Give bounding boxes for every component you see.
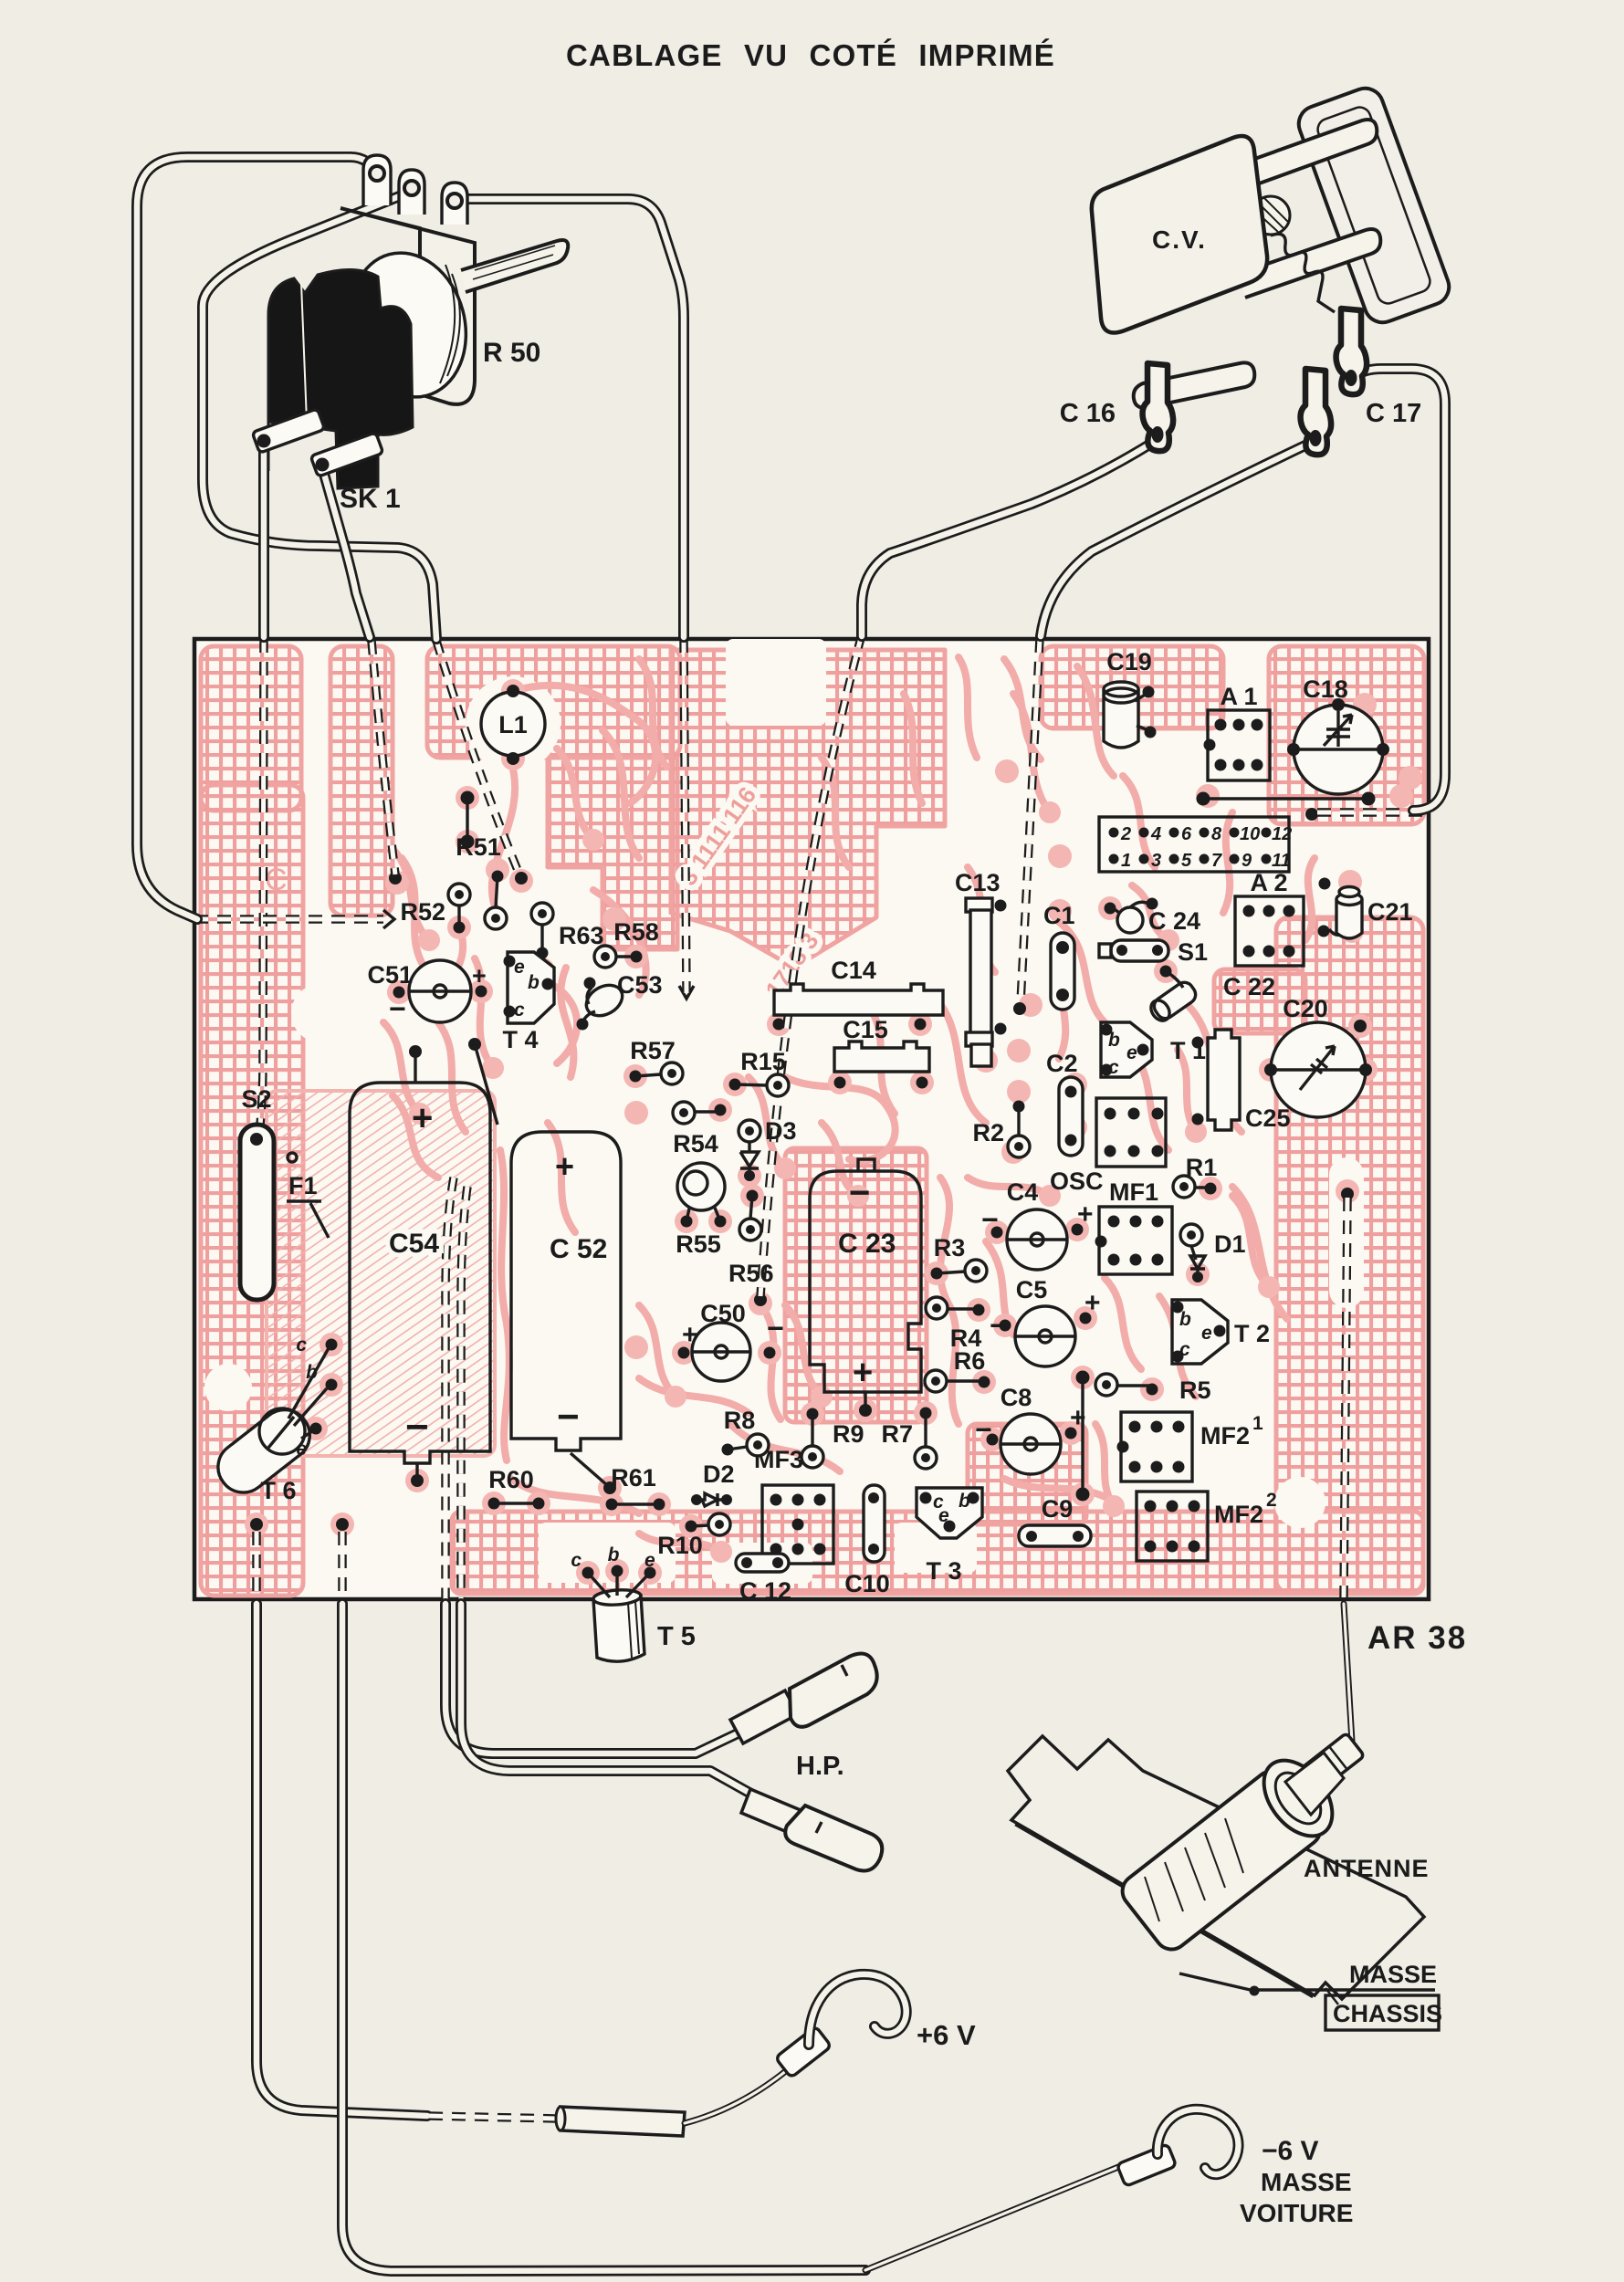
svg-text:R54: R54 (673, 1130, 718, 1157)
svg-text:+6 V: +6 V (917, 2019, 976, 2051)
transistor T4 (502, 952, 554, 1053)
resistor R15 (729, 1048, 790, 1096)
svg-text:2: 2 (1266, 1490, 1277, 1511)
svg-text:−: − (557, 1395, 580, 1438)
svg-text:R52: R52 (400, 898, 445, 926)
C.V. front plate (1092, 136, 1267, 332)
svg-text:+: + (555, 1147, 574, 1185)
wire (+6V lead insulated sleeve) (561, 2107, 685, 2136)
capacitor C52 (511, 1132, 621, 1494)
printed circuit board (194, 639, 1429, 1599)
capacitor C21 (1318, 878, 1413, 939)
svg-text:e: e (938, 1505, 949, 1526)
svg-text:e: e (514, 957, 525, 978)
svg-text:CABLAGE VU COTÉ IMPRIMÉ: CABLAGE VU COTÉ IMPRIMÉ (566, 38, 1055, 72)
wire (+6V lead dashed hidden section) (429, 2116, 559, 2119)
capacitor C15 (834, 1016, 930, 1089)
svg-text:H.P.: H.P. (796, 1752, 844, 1781)
svg-text:+: + (1077, 1199, 1094, 1230)
SK1 spade lug B (310, 433, 383, 477)
svg-text:C19: C19 (1106, 648, 1152, 675)
R50 solder lug 3 (442, 183, 467, 225)
wire (dashed, C16 wire across board to C50) (760, 634, 862, 1296)
wire jumper below C18 (1197, 792, 1376, 806)
wire (-6V bare lead to hook) (865, 2165, 1123, 2270)
R50 mounting bracket (341, 208, 475, 404)
svg-text:4: 4 (1150, 824, 1161, 844)
svg-text:C13: C13 (955, 869, 1001, 896)
svg-text:c: c (296, 1335, 307, 1356)
svg-text:OSC: OSC (1050, 1167, 1104, 1195)
connector strip pins 1-12 (1099, 817, 1292, 872)
svg-text:b: b (959, 1491, 970, 1512)
svg-text:C21: C21 (1367, 898, 1413, 926)
switch S2 (240, 1085, 297, 1300)
wire (dashed, SK1 lug 2 into board) (372, 641, 395, 874)
svg-text:b: b (1179, 1309, 1191, 1330)
wire (dashed, left loop wire entering board at left edge) (194, 915, 383, 924)
resistor R61 (606, 1464, 665, 1511)
pcb copper traces (383, 657, 1315, 1552)
svg-text:C10: C10 (844, 1570, 890, 1597)
svg-text:R51: R51 (456, 833, 501, 861)
node dots at hidden-wire ends (389, 808, 1354, 1306)
potentiometer R50 with switch SK1 (252, 155, 568, 514)
R50 shaft (461, 240, 568, 292)
wire (dashed, speaker lead A inside board) (445, 1178, 454, 1601)
svg-text:C50: C50 (700, 1300, 746, 1327)
chassis bracket plate (1008, 1736, 1424, 2005)
svg-text:+: + (853, 1354, 873, 1392)
potentiometer R55 (676, 1163, 726, 1258)
wire W2 (R50 lug2 wire down-left then into board) (203, 194, 436, 639)
wire (C.V. foot lead down-left into board) (1041, 442, 1313, 636)
capacitor C24 (1105, 898, 1201, 936)
transistor T5 leads (571, 1544, 655, 1579)
svg-text:T 6: T 6 (260, 1477, 296, 1504)
svg-text:e: e (1126, 1042, 1137, 1063)
svg-text:R57: R57 (630, 1037, 676, 1064)
svg-text:−: − (990, 1309, 1007, 1342)
antenna plug (1116, 1732, 1364, 1955)
svg-text:+: + (472, 962, 487, 989)
C.V. bottom rod (1134, 362, 1255, 407)
svg-text:C 23: C 23 (838, 1229, 896, 1259)
transistor T1 (1101, 1022, 1207, 1078)
svg-text:−: − (405, 1405, 429, 1450)
capacitor C52 top lead (468, 1038, 498, 1125)
svg-text:b: b (528, 972, 540, 993)
capacitor C12 (736, 1554, 791, 1605)
H.P. connector B (741, 1789, 882, 1871)
-6V hook terminal (1116, 2109, 1353, 2227)
svg-text:c: c (1179, 1339, 1190, 1360)
svg-text:−: − (975, 1413, 992, 1446)
svg-text:R5: R5 (1179, 1377, 1211, 1404)
fuse F1 (287, 1172, 329, 1238)
resistor R10 (657, 1513, 730, 1559)
resistor R54 (673, 1102, 727, 1157)
svg-text:1: 1 (1252, 1413, 1263, 1434)
pink solder pads under component leads (245, 679, 1422, 1585)
wire W1 (R50 lug1 left loop into board) (137, 157, 377, 919)
svg-text:e: e (1201, 1323, 1212, 1344)
wire (speaker lead B) (461, 1604, 756, 1796)
svg-text:MF2: MF2 (1214, 1501, 1263, 1528)
svg-text:C 12: C 12 (739, 1577, 791, 1605)
trimmer capacitor C18 (1287, 675, 1389, 794)
svg-text:R60: R60 (488, 1466, 534, 1493)
svg-text:ANTENNE: ANTENNE (1304, 1855, 1430, 1882)
svg-text:R61: R61 (611, 1464, 656, 1492)
capacitor C9 (1019, 1495, 1091, 1546)
white clearances in grid (204, 639, 1364, 1584)
capacitor C53 (577, 971, 663, 1031)
svg-text:C20: C20 (1283, 995, 1328, 1022)
R50 body (268, 269, 413, 488)
svg-text:C5: C5 (1016, 1276, 1048, 1303)
svg-text:T 4: T 4 (502, 1026, 538, 1053)
svg-text:5: 5 (1181, 851, 1192, 871)
svg-text:F1: F1 (288, 1172, 318, 1199)
capacitor C54 (350, 1083, 490, 1487)
transformer MF2-1 (1117, 1412, 1264, 1481)
svg-text:C: C (265, 863, 288, 897)
diode D3 (739, 1117, 797, 1181)
capacitor C5 (990, 1276, 1101, 1366)
svg-text:C 52: C 52 (550, 1234, 607, 1264)
wire (dashed, speaker lead B inside board) (461, 1187, 467, 1601)
svg-text:R1: R1 (1186, 1154, 1218, 1181)
svg-text:c: c (571, 1550, 581, 1571)
svg-text:12: 12 (1272, 824, 1292, 844)
transistor T1 block (1096, 1098, 1166, 1167)
svg-text:C1: C1 (1043, 902, 1075, 929)
C16 terminal lug (1143, 363, 1174, 451)
resistor R4 (926, 1297, 985, 1352)
svg-text:b: b (608, 1544, 620, 1565)
switch S1 (1099, 938, 1208, 966)
svg-text:C53: C53 (617, 971, 663, 999)
capacitor C1 (1043, 902, 1075, 1010)
svg-text:A 1: A 1 (1220, 683, 1257, 710)
C.V. lower rod (1238, 229, 1380, 298)
svg-text:c: c (1108, 1057, 1119, 1078)
transistor T6 (208, 1335, 337, 1504)
wire (C16 lead down-left into board) (862, 442, 1154, 636)
pcb hatched copper area under C54/F1 (267, 1091, 495, 1456)
C.V. rotor spring (1271, 234, 1335, 312)
wire (antenna lead below board) (1344, 1604, 1352, 1742)
pcb copper ground-plane grid areas (201, 646, 1424, 1596)
svg-text:−6 V: −6 V (1262, 2136, 1319, 2166)
C.V. middle foot lug (1301, 369, 1332, 455)
diode D1 (1180, 1224, 1246, 1282)
svg-text:1: 1 (1121, 851, 1131, 871)
C.V. trimmer coil (1252, 196, 1290, 235)
svg-text:L1: L1 (498, 711, 528, 738)
svg-text:R3: R3 (934, 1234, 966, 1261)
SK1 spade lug A (252, 409, 325, 454)
capacitor C50 (678, 1300, 784, 1381)
svg-text:C8: C8 (1001, 1384, 1032, 1411)
svg-text:e: e (296, 1439, 307, 1460)
svg-text:MASSE: MASSE (1261, 2168, 1352, 2196)
label MASSE CHASSIS with leader (1179, 1961, 1442, 2030)
wire (dashed, R50 lug 3 wire down to C14 area) (684, 639, 686, 993)
resistor R2 (972, 1101, 1030, 1158)
svg-text:MASSE: MASSE (1349, 1961, 1437, 1988)
capacitor C13 (955, 869, 1007, 1066)
svg-text:−: − (389, 992, 406, 1025)
resistor R56 (728, 1190, 774, 1288)
svg-text:A 2: A 2 (1250, 869, 1287, 896)
svg-text:D1: D1 (1214, 1230, 1246, 1258)
capacitor C54 top lead (409, 1045, 422, 1083)
wire (dashed, exits to -6V lead) (338, 1532, 347, 1601)
resistor R60 (488, 1466, 545, 1510)
wire (speaker lead A) (445, 1604, 736, 1753)
wire (dashed, C.V. frame foot wire down to C13 area) (1021, 639, 1040, 1002)
svg-text:C 17: C 17 (1366, 399, 1421, 428)
arrow at R50 lug3 wire end (679, 986, 694, 999)
svg-text:R8: R8 (724, 1407, 756, 1434)
C17 terminal lug (1336, 309, 1367, 394)
wire (dashed, R50 wiper wire into board) (436, 641, 519, 874)
transistor T3 (917, 1488, 982, 1585)
svg-text:VOITURE: VOITURE (1240, 2199, 1353, 2227)
resistor R58 (594, 918, 659, 968)
transformer MF1 (1095, 1178, 1173, 1274)
capacitor C25 (1192, 1030, 1291, 1132)
svg-text:−: − (767, 1312, 784, 1345)
svg-text:C 24: C 24 (1148, 907, 1200, 935)
C.V. top rod (1234, 120, 1377, 190)
wire jumper below L1 (461, 791, 475, 849)
resistor R9 (802, 1408, 864, 1469)
svg-text:R55: R55 (676, 1230, 721, 1258)
svg-text:+: + (1084, 1288, 1101, 1318)
capacitor C4 (981, 1178, 1094, 1270)
transistor T2 (1172, 1300, 1271, 1364)
IF module A2 (1235, 869, 1304, 966)
R50 rotor disc (334, 240, 481, 411)
wire (dashed, C17 wire entering board at right) (1315, 808, 1422, 817)
svg-text:8: 8 (1211, 824, 1222, 844)
wire W3 (R50 lug3 right then down into board) (456, 199, 684, 637)
resistor R8 (722, 1407, 770, 1456)
svg-text:3: 3 (1151, 851, 1161, 871)
svg-text:R15: R15 (740, 1048, 786, 1075)
svg-text:R10: R10 (657, 1532, 703, 1559)
svg-text:9: 9 (1242, 851, 1252, 871)
svg-text:R 50: R 50 (483, 338, 540, 368)
svg-text:AR 38: AR 38 (1367, 1620, 1467, 1656)
resistor R51 (456, 833, 507, 929)
svg-text:+: + (412, 1098, 433, 1138)
svg-text:T 3: T 3 (926, 1557, 961, 1585)
IF module A1 (1204, 683, 1271, 780)
svg-text:6: 6 (1181, 824, 1192, 844)
svg-text:b: b (306, 1362, 318, 1383)
svg-text:R2: R2 (972, 1119, 1004, 1146)
svg-text:11: 11 (1272, 851, 1291, 871)
svg-text:C54: C54 (389, 1229, 439, 1259)
svg-text:C 16: C 16 (1060, 399, 1116, 428)
H.P. connector A (730, 1654, 877, 1743)
svg-text:C9: C9 (1042, 1495, 1074, 1523)
svg-text:R56: R56 (728, 1260, 774, 1287)
svg-text:−: − (981, 1203, 999, 1236)
capacitor C19 (1104, 648, 1157, 748)
capacitor C22 (1147, 966, 1275, 1024)
variable capacitor C.V. assembly (1060, 83, 1454, 455)
svg-text:MF2: MF2 (1200, 1422, 1250, 1450)
svg-text:C14: C14 (831, 957, 876, 984)
capacitor C10 (844, 1485, 890, 1597)
svg-text:C2: C2 (1046, 1050, 1078, 1077)
oscillator coil OSC (1050, 1167, 1104, 1195)
wire (-6V supply lead from board) (342, 1604, 865, 2271)
svg-text:b: b (1108, 1030, 1120, 1051)
svg-text:C25: C25 (1245, 1104, 1291, 1132)
svg-text:S2: S2 (241, 1085, 271, 1113)
svg-text:R9: R9 (833, 1420, 864, 1448)
svg-text:+: + (682, 1320, 698, 1350)
resistor R52 (400, 884, 470, 934)
svg-text:R63: R63 (559, 922, 604, 949)
coil L1 (481, 685, 545, 765)
svg-text:C15: C15 (843, 1016, 888, 1043)
svg-text:SK 1: SK 1 (340, 484, 401, 514)
transformer MF3 (754, 1446, 833, 1564)
diode D2 (691, 1460, 735, 1506)
transformer MF2-2 (1137, 1490, 1277, 1561)
capacitor C2 (1046, 1050, 1083, 1156)
svg-text:c: c (514, 1000, 525, 1021)
svg-text:T 2: T 2 (1234, 1320, 1270, 1347)
svg-text:C 22: C 22 (1223, 973, 1275, 1000)
resistor R6 (925, 1347, 990, 1392)
+6V hook terminal (775, 1974, 976, 2078)
wire (dashed, antenna lead inside board) (1344, 1198, 1347, 1597)
svg-text:S1: S1 (1178, 938, 1208, 966)
resistor R1 (1173, 1154, 1217, 1198)
svg-text:2: 2 (1120, 824, 1131, 844)
wire (+6V supply lead from board) (257, 1604, 427, 2116)
svg-text:T 5: T 5 (657, 1622, 696, 1651)
svg-text:R7: R7 (881, 1420, 913, 1448)
capacitor C51 (367, 960, 487, 1025)
svg-text:C51: C51 (367, 961, 413, 989)
svg-text:R6: R6 (954, 1347, 986, 1375)
svg-text:C18: C18 (1303, 675, 1348, 703)
C.V. rear frame (1294, 83, 1454, 328)
resistor R7 (881, 1408, 937, 1470)
resistor R3 (931, 1234, 988, 1282)
resistor R63 (531, 903, 604, 959)
svg-text:C4: C4 (1007, 1178, 1039, 1206)
wire (SK1 lug A straight down into board) (258, 444, 269, 637)
svg-text:10: 10 (1240, 824, 1260, 844)
resistor R57 (630, 1037, 684, 1084)
R50 solder lug 1 (363, 155, 391, 205)
svg-text:7: 7 (1211, 851, 1222, 871)
wire (C17 lead right and down into board) (1354, 369, 1445, 811)
capacitor C14 (773, 957, 944, 1031)
transistor T5 body (588, 1571, 696, 1661)
R50 solder lug 2 (399, 170, 424, 215)
wire (dashed, SK1 lug 1 to S2, on far side of board) (260, 639, 264, 1125)
svg-text:D3: D3 (765, 1117, 797, 1145)
wire jumper right of C8 (1076, 1371, 1090, 1502)
svg-text:CHASSIS: CHASSIS (1333, 2000, 1442, 2027)
trimmer capacitor C20 (1264, 995, 1372, 1117)
wire (dashed, exits to +6V lead) (252, 1532, 261, 1601)
svg-text:R58: R58 (613, 918, 659, 946)
svg-text:D2: D2 (703, 1460, 735, 1488)
capacitor C23 (810, 1159, 921, 1417)
svg-text:MF1: MF1 (1109, 1178, 1158, 1206)
resistor R5 (1095, 1374, 1211, 1404)
capacitor C8 (975, 1384, 1086, 1474)
wire (SK1 lug B down-right into board) (322, 467, 370, 637)
svg-text:e: e (644, 1550, 655, 1571)
svg-text:C.V.: C.V. (1152, 225, 1207, 254)
wire (+6V bare lead to hook) (685, 2070, 787, 2123)
board exit pads lower left (250, 1518, 349, 1531)
svg-text:−: − (849, 1173, 870, 1213)
